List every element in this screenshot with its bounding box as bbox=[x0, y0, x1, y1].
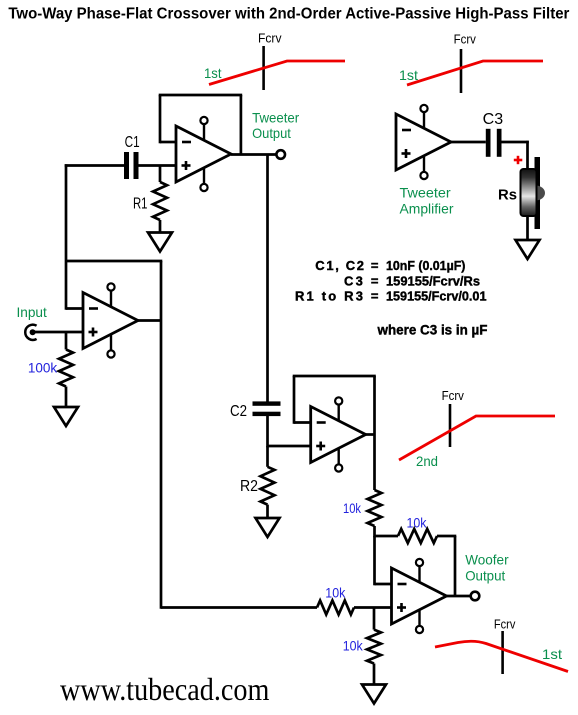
svg-text:Woofer: Woofer bbox=[465, 552, 509, 568]
svg-text:Fcrv: Fcrv bbox=[454, 33, 477, 47]
wire U5 output bbox=[447, 595, 471, 598]
ground under shunt bbox=[362, 685, 386, 704]
svg-text:C1: C1 bbox=[125, 134, 140, 151]
svg-text:R2: R2 bbox=[240, 478, 258, 495]
resistor R1 bbox=[153, 182, 167, 220]
svg-text:Fcrv: Fcrv bbox=[442, 389, 465, 403]
wire long bottom horizontal bbox=[161, 606, 317, 609]
svg-text:where C3 is in µF: where C3 is in µF bbox=[377, 322, 488, 337]
wire R1 stub bbox=[159, 166, 162, 183]
svg-text:R1: R1 bbox=[133, 196, 148, 213]
label + polarity bbox=[514, 159, 523, 162]
wire U5 minus bbox=[375, 583, 392, 586]
op-amp U1 bbox=[176, 126, 231, 182]
svg-text:1st: 1st bbox=[204, 65, 222, 81]
ground under R2 bbox=[256, 518, 280, 537]
resistor R2 bbox=[261, 467, 275, 505]
svg-text:10k: 10k bbox=[325, 584, 346, 600]
op-amp U2 bbox=[83, 293, 138, 349]
capacitor C1 bbox=[124, 152, 129, 179]
terminal Tweeter Output bbox=[276, 150, 285, 159]
svg-text:Rs: Rs bbox=[498, 187, 517, 204]
wire junction to fb resistor bbox=[375, 535, 399, 538]
wire fb right down bbox=[454, 536, 457, 596]
wire U3 output bbox=[366, 433, 375, 436]
wire U1 feedback right bbox=[240, 95, 243, 155]
wire tweeter node down to C2 bbox=[266, 155, 269, 403]
svg-text:10k: 10k bbox=[343, 500, 362, 516]
wire C3 to speaker bbox=[502, 141, 529, 144]
wire U3 feedback right bbox=[373, 376, 376, 435]
wire node A vertical (C1 left / U2 minus) bbox=[65, 164, 68, 310]
svg-text:Two-Way Phase-Flat Crossover w: Two-Way Phase-Flat Crossover with 2nd-Or… bbox=[8, 5, 569, 22]
svg-text:2nd: 2nd bbox=[416, 453, 438, 469]
svg-text:www.tubecad.com: www.tubecad.com bbox=[60, 671, 269, 707]
svg-text:Tweeter: Tweeter bbox=[252, 109, 299, 125]
wire U1 feedback top bbox=[159, 94, 243, 97]
wire 10k to junction bbox=[373, 526, 376, 537]
wire U1 feedback left bbox=[159, 95, 162, 143]
wire R2 stub bbox=[266, 446, 269, 467]
wire to U3 plus bbox=[268, 445, 311, 448]
graph G2 red curve bbox=[407, 61, 543, 85]
resistor 10k feedback bbox=[398, 529, 437, 543]
wire C1 to U1 plus bbox=[139, 164, 177, 167]
svg-text:10nF (0.01µF): 10nF (0.01µF) bbox=[386, 258, 465, 273]
wire R1 to gnd bbox=[159, 220, 162, 233]
wire fb res to right bbox=[437, 535, 456, 538]
graph G4 red curve bbox=[435, 641, 568, 671]
svg-text:159155/Fcrv/Rs: 159155/Fcrv/Rs bbox=[386, 274, 480, 289]
svg-text:100k: 100k bbox=[28, 360, 58, 376]
resistor 10k shunt bbox=[367, 630, 381, 664]
svg-text:C3: C3 bbox=[483, 111, 504, 128]
wire R2 to gnd bbox=[266, 505, 269, 518]
capacitor C3 bbox=[486, 129, 491, 157]
ground under speaker bbox=[516, 240, 540, 259]
wire C1 left bbox=[65, 164, 124, 167]
wire U2 output bbox=[138, 319, 161, 322]
wire U1 minus bbox=[160, 141, 176, 144]
wire long vertical to woofer bbox=[160, 261, 163, 609]
svg-text:10k: 10k bbox=[407, 514, 428, 530]
graph G4 Fcrv axis bbox=[501, 631, 504, 674]
terminal Woofer Output bbox=[471, 592, 480, 601]
wire 100k stub bbox=[65, 332, 68, 350]
wire 10k to U5 plus bbox=[354, 606, 392, 609]
wire junction down to minus bbox=[373, 536, 376, 585]
resistor 100k bbox=[59, 350, 73, 387]
svg-text:C3 =: C3 = bbox=[344, 274, 379, 289]
svg-text:Amplifier: Amplifier bbox=[400, 200, 454, 216]
wire U2 feedback top bbox=[66, 260, 162, 263]
speaker Rs symbol bbox=[535, 157, 541, 229]
ground under R1 bbox=[148, 233, 172, 252]
resistor 10k (from U3 output) bbox=[368, 490, 382, 526]
wire 100k to gnd bbox=[65, 387, 68, 408]
graph G2 Fcrv axis bbox=[460, 49, 463, 93]
wire U1 output bbox=[231, 153, 277, 156]
svg-text:1st: 1st bbox=[399, 67, 418, 83]
svg-text:Tweeter: Tweeter bbox=[400, 184, 452, 200]
graph G3 red curve bbox=[399, 416, 555, 460]
graph G3 Fcrv axis bbox=[449, 404, 452, 447]
svg-text:Fcrv: Fcrv bbox=[494, 617, 516, 631]
resistor 10k input bbox=[317, 601, 354, 615]
wire input to U2 plus bbox=[33, 331, 83, 334]
svg-text:Output: Output bbox=[252, 125, 291, 141]
capacitor C2 bbox=[253, 401, 281, 405]
wire U2 minus bbox=[66, 307, 83, 310]
wire 10k shunt stub bbox=[373, 608, 376, 630]
wire shunt to gnd bbox=[373, 664, 376, 685]
svg-text:Output: Output bbox=[465, 567, 505, 583]
wire U4 output bbox=[451, 141, 486, 144]
svg-text:C2: C2 bbox=[230, 403, 247, 420]
wire U3 out down bbox=[373, 435, 376, 491]
svg-text:1st: 1st bbox=[542, 646, 562, 662]
wire U3 minus bbox=[294, 421, 311, 424]
svg-text:159155/Fcrv/0.01: 159155/Fcrv/0.01 bbox=[386, 288, 487, 303]
op-amp U5 bbox=[392, 568, 447, 624]
svg-text:Fcrv: Fcrv bbox=[258, 32, 282, 46]
graph G1 red curve bbox=[209, 61, 345, 85]
connector input jack bbox=[25, 325, 36, 340]
graph G1 Fcrv axis bbox=[262, 46, 265, 90]
svg-text:Input: Input bbox=[17, 304, 47, 320]
svg-text:10k: 10k bbox=[343, 638, 364, 654]
op-amp U4 tweeter amplifier bbox=[396, 114, 451, 170]
wire C2 to junction bbox=[266, 416, 269, 447]
op-amp U3 bbox=[311, 407, 366, 463]
ground under 100k bbox=[54, 407, 78, 426]
wire U3 feedback top bbox=[293, 375, 376, 378]
wire U3 feedback left bbox=[293, 376, 296, 424]
